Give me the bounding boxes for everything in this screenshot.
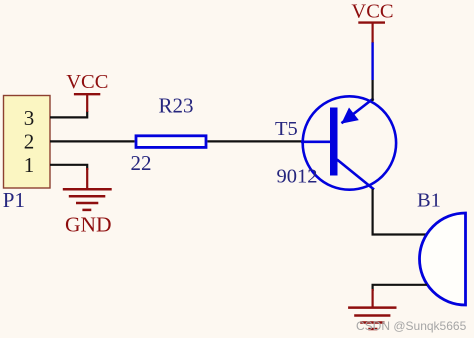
wire pin3 to VCC xyxy=(50,111,87,117)
svg-text:9012: 9012 xyxy=(277,166,318,188)
svg-text:3: 3 xyxy=(24,106,35,130)
svg-text:VCC: VCC xyxy=(351,1,393,23)
emitter arrow xyxy=(341,108,359,124)
wire resistor to transistor base xyxy=(208,140,303,142)
svg-text:B1: B1 xyxy=(417,190,441,212)
svg-text:T5: T5 xyxy=(275,118,298,140)
svg-text:1: 1 xyxy=(24,153,35,177)
wire pin1 to GND xyxy=(50,165,87,170)
body circle xyxy=(303,96,396,189)
buzzer B1 xyxy=(417,190,466,305)
svg-text:22: 22 xyxy=(131,151,152,175)
collector line (bottom) xyxy=(337,160,374,190)
resistor R23 xyxy=(136,136,206,148)
svg-text:R23: R23 xyxy=(159,94,194,118)
svg-text:CSDN @Sunqk5665: CSDN @Sunqk5665 xyxy=(356,319,467,333)
connector P1 xyxy=(4,96,51,189)
transistor T5 (PNP 9012) xyxy=(275,96,396,189)
svg-text:GND: GND xyxy=(65,212,112,236)
emitter line (top, with arrow) xyxy=(342,98,374,123)
ground GND (left) xyxy=(63,168,112,236)
wire transistor bottom to buzzer xyxy=(373,189,426,235)
power port VCC (right) xyxy=(351,1,393,43)
wire transistor top: blue segment xyxy=(371,42,373,80)
svg-text:P1: P1 xyxy=(3,188,25,212)
base pin xyxy=(301,141,331,144)
wire transistor top: black segment xyxy=(372,80,374,101)
power port VCC (left) xyxy=(66,71,108,112)
svg-text:2: 2 xyxy=(24,129,35,153)
wire pin2 to resistor xyxy=(50,140,135,142)
base bar xyxy=(330,108,338,176)
ground (bottom right) xyxy=(348,289,396,329)
wire buzzer bottom to ground xyxy=(373,285,427,291)
svg-text:VCC: VCC xyxy=(66,71,108,93)
